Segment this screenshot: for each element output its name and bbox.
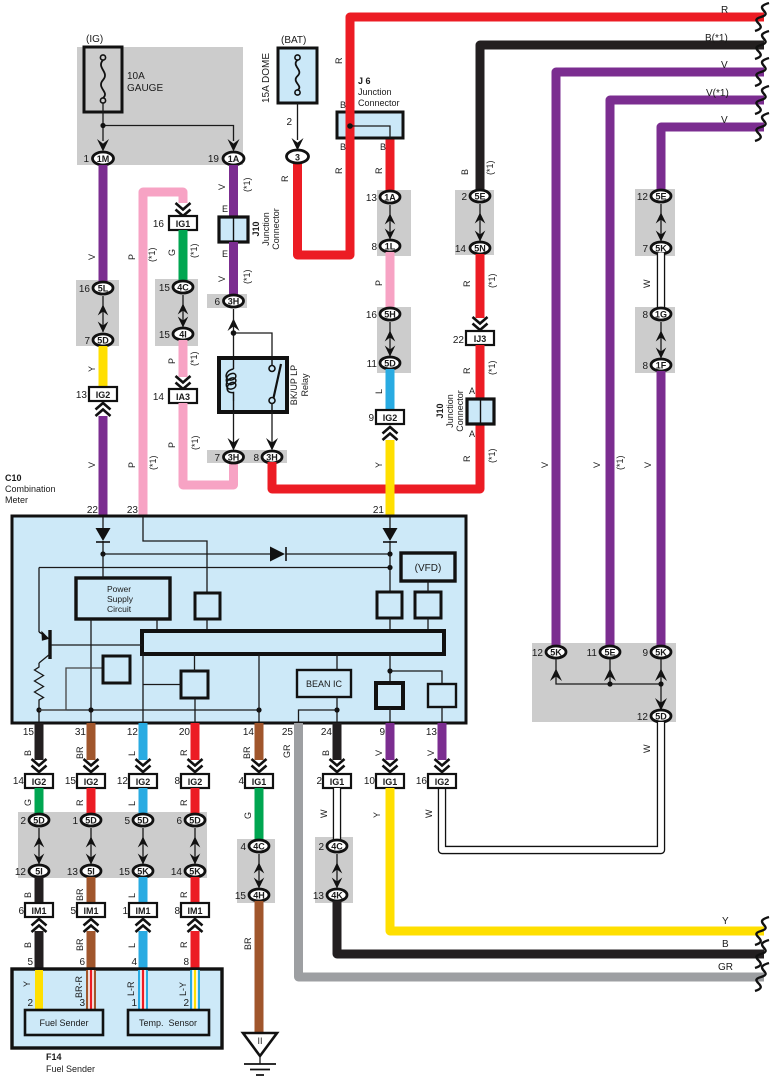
wire BR IM1 to F14: [87, 931, 96, 970]
wire B pin15: [35, 723, 44, 760]
connector 1A: [223, 152, 244, 165]
svg-text:BR-R: BR-R: [74, 976, 84, 998]
svg-text:BEAN IC: BEAN IC: [306, 679, 343, 689]
svg-text:L: L: [127, 893, 137, 898]
wire P riser pin23 to IG1: [143, 192, 183, 517]
svg-text:8: 8: [174, 776, 180, 787]
svg-text:(BAT): (BAT): [281, 35, 306, 46]
pair arrows 5D/5I col15: [38, 828, 40, 864]
connector 7 3H: [224, 451, 244, 463]
svg-text:23: 23: [127, 505, 139, 516]
svg-text:(*1): (*1): [189, 351, 199, 366]
svg-text:J10: J10: [251, 221, 261, 236]
wire W col24: [333, 788, 341, 840]
transistor Q: [39, 630, 142, 663]
svg-text:(*1): (*1): [487, 360, 497, 375]
svg-text:4C: 4C: [331, 842, 343, 852]
svg-text:Relay: Relay: [300, 373, 310, 397]
wire G col14: [255, 788, 264, 840]
svg-text:5K: 5K: [655, 648, 667, 658]
connector 11 5D: [380, 357, 400, 369]
chevron into IG1: [176, 203, 191, 216]
junction connector J10 right: [435, 390, 494, 432]
wire V top to 12 5K: [556, 72, 764, 647]
svg-text:2: 2: [183, 998, 189, 1009]
connector 6 3H: [224, 295, 244, 307]
svg-text:(*1): (*1): [485, 160, 495, 175]
svg-text:B: B: [340, 142, 346, 152]
continuation squiggle V1: [755, 58, 769, 86]
internal line1 with diode: [103, 553, 390, 555]
chevron up col20: [188, 919, 203, 932]
svg-text:Power: Power: [107, 584, 131, 594]
svg-text:V: V: [643, 462, 653, 468]
connector 8 3H: [262, 451, 282, 463]
connector 8 IM1: [181, 903, 209, 917]
connector 12 5D bottom: [651, 710, 671, 722]
svg-text:1F: 1F: [656, 361, 667, 371]
svg-text:V: V: [426, 750, 436, 756]
wire Y 5D to IG2: [99, 346, 108, 387]
relay BK/UP LP: [219, 358, 310, 412]
wire resistor branch to sq1: [39, 668, 103, 710]
wire PSU to bus: [156, 619, 158, 631]
svg-text:4C: 4C: [177, 283, 189, 293]
svg-text:B: B: [380, 142, 386, 152]
wire bus to sq3: [389, 654, 391, 683]
svg-text:1: 1: [72, 816, 78, 827]
wire sq2 tap: [143, 684, 181, 686]
pair arrows col20: [194, 828, 196, 864]
connector shading 5L/5D: [76, 280, 119, 346]
svg-text:15: 15: [23, 727, 35, 738]
svg-text:8: 8: [371, 242, 377, 253]
chevron into IA3: [176, 376, 191, 389]
svg-text:B: B: [340, 100, 346, 110]
connector shading bottom-left 5D/5I/5K row: [18, 812, 207, 878]
svg-text:L: L: [374, 389, 384, 394]
connector shading top-left fuse block: [77, 47, 243, 165]
connector 1M: [93, 152, 114, 165]
ic square a: [195, 593, 220, 619]
wire pin25 internal: [299, 710, 338, 723]
svg-text:Y: Y: [87, 366, 97, 372]
svg-text:V: V: [721, 115, 728, 126]
wire bottom-right junction bus: [556, 659, 661, 710]
svg-text:20: 20: [179, 727, 191, 738]
svg-text:L-R: L-R: [126, 981, 136, 996]
arrow into 12 5D: [655, 698, 667, 711]
pair arrows 5E/5N: [479, 204, 481, 241]
arrow up into 12 5K: [550, 669, 562, 682]
svg-text:Y: Y: [22, 981, 32, 987]
svg-text:V: V: [217, 184, 227, 190]
node J6: [347, 123, 353, 129]
svg-text:16: 16: [153, 219, 165, 230]
svg-text:(*1): (*1): [242, 269, 252, 284]
wire L 5D to IG2: [386, 369, 395, 410]
connector shading 5H/5D: [377, 307, 411, 373]
chevron up col12: [136, 919, 151, 932]
connector 11 5E bottom: [600, 646, 620, 658]
svg-text:25: 25: [282, 727, 294, 738]
svg-text:5D: 5D: [85, 816, 97, 826]
svg-text:1: 1: [83, 154, 89, 165]
svg-text:2: 2: [286, 117, 292, 128]
node L1 pin31: [88, 707, 93, 712]
wire sq2 top to bus: [194, 654, 196, 671]
svg-text:F14: F14: [46, 1052, 62, 1062]
connector IA3: [169, 389, 197, 403]
connector 2 IG1: [323, 774, 351, 788]
diode at pin 22: [102, 517, 104, 554]
svg-text:2: 2: [461, 192, 467, 203]
svg-text:15: 15: [159, 283, 171, 294]
wire B IM1 to F14: [35, 931, 44, 970]
svg-text:P: P: [127, 462, 137, 468]
J6 internal tap: [350, 126, 390, 138]
connector IJ3: [466, 331, 494, 345]
svg-text:Junction: Junction: [261, 212, 271, 246]
wire relay switch to 8 3H: [271, 412, 273, 449]
svg-text:R: R: [462, 455, 472, 462]
svg-text:15A DOME: 15A DOME: [261, 53, 272, 103]
svg-text:R: R: [179, 749, 189, 756]
svg-text:8: 8: [642, 310, 648, 321]
svg-text:31: 31: [75, 727, 87, 738]
connector 16 IG2: [428, 774, 456, 788]
arrow up into 9 5K: [655, 669, 667, 682]
wire BR pin31: [87, 723, 96, 760]
node pin24: [334, 707, 339, 712]
svg-text:14: 14: [153, 392, 165, 403]
wire R 8 3H to J10 right: [272, 424, 480, 489]
chevron col20: [188, 759, 203, 772]
svg-text:BR: BR: [243, 937, 253, 950]
svg-text:IG2: IG2: [383, 413, 398, 423]
node below fuse IG: [100, 123, 105, 128]
svg-text:Connector: Connector: [455, 390, 465, 432]
svg-text:5I: 5I: [35, 867, 43, 877]
svg-text:IJ3: IJ3: [474, 334, 487, 344]
chevron col31: [84, 759, 99, 772]
continuation squiggle GR: [755, 963, 769, 991]
wire V pin13: [438, 723, 447, 760]
svg-text:R: R: [462, 280, 472, 287]
svg-text:A: A: [469, 386, 475, 396]
fuel sender inner box: [25, 1010, 103, 1035]
connector shading 5E/5K right: [635, 189, 675, 256]
power supply circuit box: [76, 578, 170, 619]
svg-text:(*1): (*1): [487, 448, 497, 463]
wire Y inside F14: [35, 970, 43, 1011]
svg-text:BR: BR: [75, 938, 85, 951]
svg-text:GR: GR: [718, 962, 733, 973]
svg-text:1A: 1A: [384, 193, 396, 203]
connector shading 5E/5N: [455, 190, 494, 255]
svg-text:9: 9: [642, 648, 648, 659]
connector IG1: [169, 216, 197, 230]
svg-text:V: V: [87, 254, 97, 260]
svg-text:6: 6: [79, 957, 85, 968]
svg-text:J10: J10: [435, 403, 445, 418]
node L1 pin14: [256, 707, 261, 712]
svg-text:P: P: [127, 254, 137, 260]
svg-text:15: 15: [235, 891, 247, 902]
connector 12 5I: [29, 865, 49, 877]
pair arrows 5H/5D: [389, 322, 391, 356]
svg-text:IG1: IG1: [176, 219, 191, 229]
svg-text:Fuel Sender: Fuel Sender: [46, 1064, 95, 1074]
connector shading 4C/4H col14: [237, 839, 275, 903]
connector 6 5D: [185, 814, 205, 826]
svg-text:14: 14: [243, 727, 255, 738]
node relay feed: [231, 330, 237, 336]
svg-text:5K: 5K: [189, 867, 201, 877]
svg-text:W: W: [424, 809, 434, 818]
connector 9 IG2: [376, 410, 404, 424]
arrow into 1A: [228, 139, 240, 152]
wire V top to 12 5E stack: [661, 127, 764, 192]
wire bus to pin14: [258, 654, 260, 723]
svg-text:Meter: Meter: [5, 495, 28, 505]
svg-text:4H: 4H: [253, 891, 265, 901]
pair arrows 1A/1L: [389, 205, 391, 239]
svg-text:E: E: [222, 249, 228, 259]
wire pin12 to bus: [142, 654, 144, 723]
connector 4C: [173, 281, 193, 293]
svg-text:5H: 5H: [384, 310, 396, 320]
VFD box: [401, 553, 455, 581]
svg-text:(*1): (*1): [189, 243, 199, 258]
svg-text:5K: 5K: [655, 244, 667, 254]
svg-text:5D: 5D: [137, 816, 149, 826]
wire sq-c to bus: [427, 618, 429, 631]
wire V(*1) 1A to J10: [229, 165, 238, 218]
svg-text:2: 2: [316, 776, 322, 787]
svg-text:R: R: [462, 367, 472, 374]
svg-text:15: 15: [65, 776, 77, 787]
svg-text:IG2: IG2: [188, 777, 203, 787]
chevron col13: [435, 759, 450, 772]
node 5E: [607, 681, 612, 686]
svg-text:P: P: [374, 280, 384, 286]
svg-text:5E: 5E: [604, 648, 615, 658]
svg-text:7: 7: [214, 453, 220, 464]
combination meter C10: [5, 473, 466, 723]
svg-text:4K: 4K: [331, 891, 343, 901]
bus bar: [142, 631, 444, 654]
svg-text:13: 13: [313, 891, 325, 902]
connector 2 5D: [29, 814, 49, 826]
connector shading 1A/1L: [377, 190, 411, 256]
chevron col24: [330, 759, 345, 772]
svg-text:IM1: IM1: [187, 906, 202, 916]
ic square 3: [376, 683, 403, 708]
svg-text:IG2: IG2: [84, 777, 99, 787]
connector 12 5E: [651, 190, 671, 202]
svg-text:16: 16: [416, 776, 428, 787]
node sq3 branch: [387, 668, 392, 673]
wire L col12: [139, 788, 148, 814]
chevron up into IG2: [96, 403, 111, 416]
wire GR pin25 to right edge: [299, 723, 765, 977]
svg-text:1A: 1A: [228, 154, 240, 164]
svg-text:5E: 5E: [474, 192, 485, 202]
svg-text:BR: BR: [242, 746, 252, 759]
svg-text:R: R: [179, 941, 189, 948]
svg-text:B: B: [321, 750, 331, 756]
svg-text:14: 14: [171, 867, 183, 878]
connector 5D: [93, 334, 113, 346]
svg-text:9: 9: [368, 413, 374, 424]
svg-text:Supply: Supply: [107, 594, 134, 604]
svg-text:J 6: J 6: [358, 76, 371, 86]
svg-text:11: 11: [587, 648, 598, 659]
wire pin23 internal: [143, 517, 207, 593]
svg-text:4C: 4C: [253, 842, 265, 852]
continuation squiggle B2: [755, 940, 769, 968]
svg-text:22: 22: [453, 335, 465, 346]
svg-text:12: 12: [15, 867, 27, 878]
svg-text:V: V: [374, 750, 384, 756]
chevron col9: [383, 759, 398, 772]
wire node to PSU: [102, 554, 104, 578]
svg-text:9: 9: [379, 727, 385, 738]
svg-text:R: R: [374, 167, 384, 174]
svg-text:5D: 5D: [97, 336, 109, 346]
svg-text:2: 2: [318, 842, 324, 853]
svg-text:L: L: [127, 943, 137, 948]
wire R IM1 to F14: [191, 931, 200, 970]
wire L 5K to IM1: [139, 877, 148, 903]
node line2 right: [387, 565, 392, 570]
svg-text:12: 12: [127, 727, 139, 738]
wire sq-b to bus: [389, 618, 391, 631]
arrow up into 11 5E: [604, 669, 616, 682]
pair arrows col12: [142, 828, 144, 864]
svg-text:IG1: IG1: [252, 777, 267, 787]
svg-text:1: 1: [131, 998, 137, 1009]
svg-text:16: 16: [79, 284, 91, 295]
pair arrows 4C/4I: [182, 295, 184, 327]
svg-text:R: R: [280, 175, 290, 182]
ic square 2: [181, 671, 208, 698]
svg-text:L: L: [127, 801, 137, 806]
connector 8 1L: [380, 240, 400, 252]
wire BR 4H to ground: [255, 901, 264, 1034]
svg-text:(*1): (*1): [615, 455, 625, 470]
svg-text:V(*1): V(*1): [706, 88, 729, 99]
svg-text:5K: 5K: [137, 867, 149, 877]
svg-text:C10: C10: [5, 473, 22, 483]
svg-text:A: A: [469, 429, 475, 439]
wire BR 5I to IM1: [87, 877, 96, 903]
svg-text:L-Y: L-Y: [178, 982, 188, 996]
wire W 5D to 16 IG2: [442, 722, 661, 850]
svg-text:12: 12: [532, 648, 544, 659]
svg-text:B(*1): B(*1): [705, 33, 728, 44]
svg-text:IM1: IM1: [135, 906, 150, 916]
pair arrows 5L/5D: [102, 296, 104, 332]
chevron up into IG2: [383, 427, 398, 440]
connector 14 5K: [185, 865, 205, 877]
svg-text:13: 13: [366, 193, 378, 204]
ground II: [243, 1033, 277, 1075]
connector shading 4C/4I: [155, 279, 198, 346]
wire BR-R striped: [86, 970, 96, 1011]
connector shading bottom-right 5K/5E/5K/5D: [532, 643, 676, 722]
connector 4 4C: [249, 840, 269, 852]
svg-text:2: 2: [20, 816, 26, 827]
svg-text:Temp. Sensor: Temp. Sensor: [139, 1018, 197, 1028]
resistor R: [35, 663, 44, 723]
svg-text:5I: 5I: [87, 867, 95, 877]
svg-text:E: E: [222, 204, 228, 214]
svg-text:3: 3: [79, 998, 85, 1009]
wire L pin12: [139, 723, 148, 760]
connector 13 1A: [380, 191, 400, 203]
connector shading 7/8 3H: [207, 450, 287, 463]
svg-text:BR: BR: [75, 746, 85, 759]
fuel sender F14 box: [12, 969, 222, 1048]
arrow up into 6 3H: [228, 319, 240, 332]
svg-text:Connector: Connector: [358, 98, 400, 108]
connector 3: [287, 150, 309, 163]
svg-text:3H: 3H: [228, 453, 240, 463]
wire 3H to relay coil: [233, 309, 235, 360]
svg-text:13: 13: [67, 867, 79, 878]
svg-text:IG2: IG2: [32, 777, 47, 787]
svg-text:5L: 5L: [98, 284, 109, 294]
wire BEAN IC to pin24: [336, 697, 338, 723]
svg-text:13: 13: [76, 390, 88, 401]
svg-text:R: R: [179, 799, 189, 806]
svg-text:B: B: [460, 169, 470, 175]
svg-text:1L: 1L: [385, 242, 396, 252]
svg-text:V: V: [721, 60, 728, 71]
ic square b: [377, 592, 402, 618]
svg-text:(*1): (*1): [190, 435, 200, 450]
wire line2 to transistor: [38, 568, 40, 633]
connector 15 5K: [133, 865, 153, 877]
pair arrows 1G/1F: [660, 322, 662, 358]
svg-text:IG1: IG1: [330, 777, 345, 787]
connector IG2 left: [89, 387, 117, 401]
svg-text:5: 5: [70, 906, 76, 917]
svg-text:GAUGE: GAUGE: [127, 83, 163, 94]
svg-text:W: W: [319, 809, 329, 818]
wire branch to relay switch: [234, 333, 273, 360]
svg-text:IG1: IG1: [383, 777, 398, 787]
wire pin21 node to sq-b: [389, 554, 391, 592]
wire sq4 to pin13: [441, 707, 443, 723]
svg-text:V: V: [217, 276, 227, 282]
svg-text:5: 5: [124, 816, 130, 827]
svg-text:(IG): (IG): [86, 34, 103, 45]
connector 14 IG2: [25, 774, 53, 788]
continuation squiggle V2: [755, 86, 769, 114]
svg-text:W: W: [642, 279, 652, 288]
continuation squiggle R: [755, 3, 769, 31]
svg-text:W: W: [642, 744, 652, 753]
node 5K: [658, 681, 663, 686]
svg-text:22: 22: [87, 505, 99, 516]
ic square 1: [103, 656, 130, 683]
svg-text:19: 19: [208, 154, 220, 165]
chevron up col31: [84, 919, 99, 932]
svg-text:5D: 5D: [384, 359, 396, 369]
